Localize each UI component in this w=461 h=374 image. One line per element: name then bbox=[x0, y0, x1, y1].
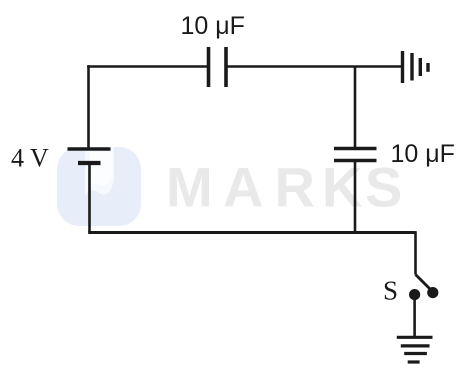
ground bottom bar 4 bbox=[408, 360, 420, 363]
capacitor C2 top plate bbox=[334, 147, 377, 151]
ground top-right bar 4 bbox=[426, 63, 429, 72]
svg-text:4 V: 4 V bbox=[11, 144, 49, 173]
capacitor C1 right plate bbox=[224, 47, 228, 87]
ground bottom bar 3 bbox=[404, 352, 427, 355]
ground bottom bar 2 bbox=[401, 344, 430, 347]
ground bottom bar 1 bbox=[397, 336, 433, 339]
capacitor C2 bottom plate bbox=[334, 159, 377, 163]
wire switch to ground bbox=[413, 295, 416, 337]
wire top-left horizontal (battery top to C1 left plate) bbox=[87, 65, 208, 68]
wire right vertical lower (C2 bottom plate to bottom wire) bbox=[354, 161, 357, 233]
wire switch feed vertical bbox=[414, 231, 417, 274]
wire left vertical upper (top wire down to battery) bbox=[87, 65, 90, 149]
battery long plate (positive) bbox=[68, 147, 111, 151]
wire top-right horizontal (C1 right plate to top ground) bbox=[226, 65, 403, 68]
wire left vertical lower (battery to bottom wire) bbox=[88, 163, 91, 233]
battery short plate (negative) bbox=[78, 161, 101, 165]
ground top-right bar 2 bbox=[410, 53, 413, 81]
svg-text:10 μF: 10 μF bbox=[181, 12, 245, 40]
svg-text:MARKS: MARKS bbox=[166, 156, 402, 219]
switch S right contact dot bbox=[427, 287, 438, 298]
svg-text:S: S bbox=[383, 276, 398, 306]
ground top-right bar 1 bbox=[401, 51, 404, 83]
ground top-right bar 3 bbox=[419, 58, 422, 76]
switch S left contact dot bbox=[409, 289, 420, 300]
watermark logo blob bbox=[57, 147, 141, 226]
svg-text:10 μF: 10 μF bbox=[391, 140, 455, 168]
wire right vertical upper (top wire to C2 top plate) bbox=[354, 67, 357, 149]
node T junction top wire to C2 branch bbox=[354, 66, 356, 69]
switch S lever arm bbox=[416, 275, 432, 291]
capacitor C1 left plate bbox=[207, 47, 211, 87]
wire bottom horizontal bbox=[88, 231, 415, 234]
